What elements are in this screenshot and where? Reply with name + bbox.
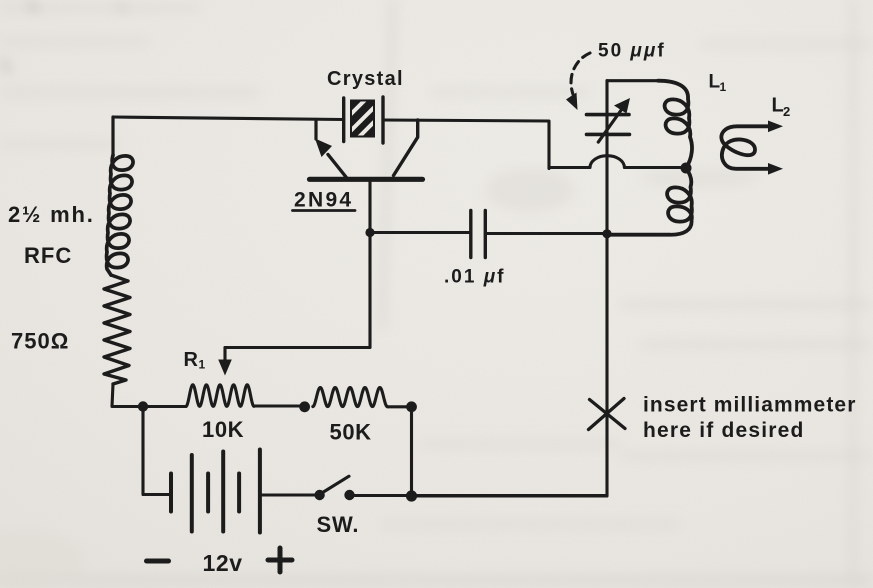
wire: base lead down [225,181,370,348]
wire: left vertical from top corner into RFC [111,117,114,155]
capacitor C1 wire right [485,232,607,235]
svg-text:R: R [184,349,199,371]
svg-text:RFC: RFC [24,243,72,268]
label .01 uf [444,267,506,288]
inductor RFC (2.5 mh, 750 ohm) loops [107,155,134,275]
dashed pointer arc to 50 uuf [566,53,590,110]
crystal Y1 plates [344,97,383,143]
label L1 [709,71,727,94]
switch SW throw [344,490,354,500]
label R1 [184,349,206,372]
wire: tank feed with hop over meter rail [549,156,686,168]
wire: RFC bottom lead to bottom-left corner [112,384,186,407]
variable capacitor C2 plates [587,115,630,135]
transistor Q1 2N94 base bar [310,177,423,182]
battery BT1 plates [171,450,260,533]
svg-text:50 μμf: 50 μμf [598,41,666,62]
switch SW lever [321,476,349,493]
svg-text:Crystal: Crystal [327,68,404,90]
svg-text:insert milliammeter: insert milliammeter [643,394,856,417]
svg-text:1: 1 [199,358,206,372]
L2 output arrow top [768,121,783,133]
inductor RFC zigzag (750 ohm) [104,275,130,384]
transistor Q1 emitter lead with arrow [315,139,346,178]
label minus [147,559,169,564]
svg-text:50K: 50K [330,419,372,444]
node: collector tap on L1 [681,163,692,174]
inductor L1 lower half [607,168,692,235]
transistor Q1 emitter stub from top rail [314,120,317,140]
svg-text:.01 μf: .01 μf [444,267,506,288]
svg-text:10K: 10K [202,417,244,442]
crystal Y1 hatched body [344,89,388,151]
potentiometer R1 wiper arrow [218,348,232,376]
wire: 10K to 50K [254,404,305,407]
switch SW pole [314,490,324,500]
wire: left rail down to battery [143,407,171,495]
svg-text:12v: 12v [203,550,243,576]
wire: tank top from varcap to L1 [607,79,658,82]
inductor L1 upper half [658,81,692,168]
wire: top rail left segment [113,117,344,120]
node: junction between 10K and 50K [299,401,310,412]
svg-text:SW.: SW. [317,512,360,537]
node: bias loop bottom junction [406,490,417,501]
X mark milliammeter insertion [589,399,626,430]
node: RFC / rail junction bottom-left [138,401,148,411]
wire: battery + to switch [260,493,320,496]
svg-text:750Ω: 750Ω [11,329,69,354]
svg-text:2: 2 [783,104,790,119]
label L2 [772,95,791,120]
wire: 50K to right corner [387,405,411,408]
transistor Q1 collector lead [394,120,418,176]
svg-text:L: L [772,95,784,117]
wire: switch to bottom rail [350,494,608,497]
svg-text:1: 1 [720,80,727,94]
wire: right vertical of bias loop [410,407,413,496]
link coil L2 [721,126,769,169]
svg-text:2N94: 2N94 [294,188,353,211]
resistor R2 50K body [313,388,388,407]
node: base / feedback junction [365,228,374,237]
wire: meter rail vertical, continuous through varcap [412,81,608,496]
variable capacitor C2 arrow [598,98,630,142]
L2 output arrow bottom [768,163,783,175]
resistor R1 10K body [186,385,254,407]
capacitor C1 plates [471,211,486,258]
svg-text:here if desired: here if desired [643,419,805,442]
label insert milliammeter here if desired [643,394,856,443]
label 2N94 underlined [293,188,356,211]
node: tank bottom junction [602,229,611,238]
svg-text:2½ mh.: 2½ mh. [8,202,95,227]
wire: top rail right segment to step-down [383,120,549,169]
node: 50K right junction [406,401,417,412]
capacitor C1 .01 uf wire left [370,231,471,234]
label plus [268,548,292,572]
